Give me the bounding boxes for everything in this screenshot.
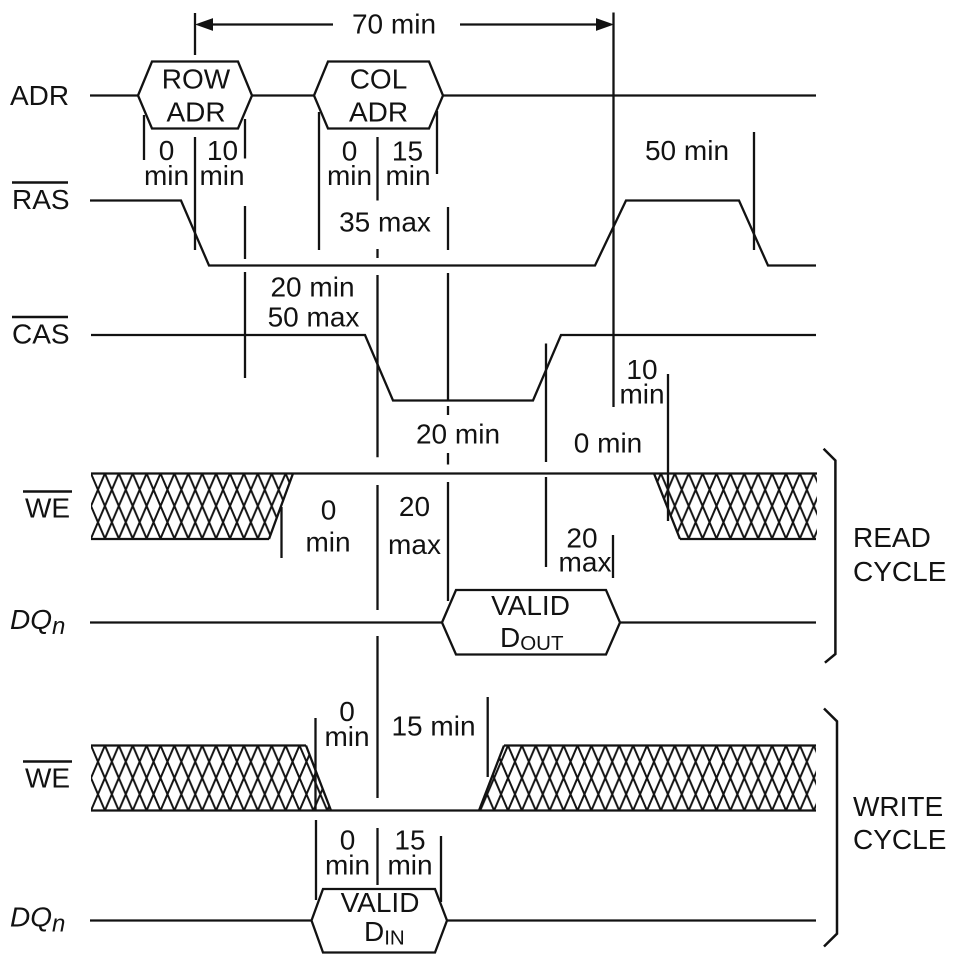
DQn read trailing line — [620, 621, 816, 623]
tick DIN left x=316 — [315, 820, 317, 900]
CAS label overline — [12, 316, 68, 319]
svg-text:min: min — [385, 160, 430, 191]
long marker line x=377.5 main — [376, 275, 378, 610]
WE read right band taper — [654, 474, 680, 540]
long marker line x=377.5 upper tick — [376, 137, 378, 201]
tick row-adr 10min right x=246 — [244, 119, 246, 159]
WE read hatch left — [91, 474, 293, 540]
tick x=668 — [667, 374, 669, 521]
svg-text:ADR: ADR — [349, 97, 408, 128]
svg-text:ADR: ADR — [10, 80, 69, 111]
svg-text:min: min — [305, 527, 350, 558]
svg-text:DIN: DIN — [364, 916, 405, 950]
svg-text:CYCLE: CYCLE — [853, 824, 946, 855]
long marker line x=377.5 lower — [376, 636, 378, 798]
WE write label overline — [23, 760, 72, 763]
svg-text:max: max — [559, 547, 612, 578]
RAS label overline — [12, 181, 68, 184]
svg-text:min: min — [144, 160, 189, 191]
tick x=613 short for 20max dout — [612, 535, 614, 578]
wire ADR between hexagons — [252, 94, 314, 96]
WE write bottom line — [91, 809, 816, 811]
WE read label overline — [23, 490, 72, 493]
svg-text:DQn: DQn — [10, 604, 65, 640]
tick row-adr 0min left x=144 — [143, 115, 145, 160]
svg-text:0: 0 — [321, 495, 337, 526]
WE write right band top — [504, 744, 816, 746]
RAS waveform — [90, 201, 816, 266]
svg-text:CAS: CAS — [12, 319, 70, 350]
tick col-adr left x=319 — [318, 112, 320, 250]
svg-text:70 min: 70 min — [352, 9, 436, 40]
svg-text:WRITE: WRITE — [853, 791, 943, 822]
brace READ cycle — [824, 449, 836, 663]
tick x=246 lower segments — [244, 206, 246, 378]
CAS waveform — [91, 335, 816, 401]
dimension 70 min right boundary long line at x=613.5 — [612, 13, 614, 408]
svg-text:min: min — [619, 379, 664, 410]
tick 50min right x=754 — [753, 132, 755, 250]
tick DIN right x=441 — [440, 836, 442, 902]
tick DIN middle x=377.5 — [376, 828, 378, 885]
svg-text:20: 20 — [399, 491, 430, 522]
svg-text:VALID: VALID — [341, 887, 420, 918]
svg-text:READ: READ — [853, 522, 931, 553]
marker line x=448 segment CAS — [447, 273, 449, 400]
brace WRITE cycle — [824, 709, 837, 947]
dimension 70 min left arrowhead — [197, 19, 213, 30]
tick WE write 15min right x=487.7 — [487, 697, 489, 777]
svg-text:0 min: 0 min — [574, 428, 642, 459]
svg-text:VALID: VALID — [491, 590, 570, 621]
bus hexagon VALID DOUT — [442, 590, 620, 655]
DQn read lead line — [90, 621, 442, 623]
WE read right band bottom — [680, 538, 816, 540]
svg-text:WE: WE — [25, 493, 70, 524]
svg-text:max: max — [388, 529, 441, 560]
marker line x=448 segment 35max — [447, 207, 449, 250]
svg-text:20 min: 20 min — [270, 272, 354, 303]
wire ADR trailing — [443, 94, 816, 96]
WE write hatch left — [91, 746, 331, 811]
svg-text:ROW: ROW — [162, 64, 231, 95]
WE read top line — [91, 472, 817, 474]
tick x=546 upper — [545, 344, 547, 463]
svg-text:COL: COL — [350, 64, 408, 95]
svg-text:50 max: 50 max — [268, 302, 360, 333]
svg-text:DQn: DQn — [10, 902, 65, 938]
svg-text:15 min: 15 min — [391, 711, 475, 742]
svg-text:35 max: 35 max — [339, 207, 431, 238]
tick WE write 0min left x=315.5 — [314, 718, 316, 810]
WE read left band taper — [269, 474, 293, 540]
WE write hatch right — [479, 746, 816, 811]
svg-text:min: min — [327, 160, 372, 191]
WE write left band top — [91, 744, 306, 746]
svg-text:WE: WE — [25, 763, 70, 794]
dimension 70 min left boundary line — [194, 13, 196, 55]
DQn write trailing line — [447, 919, 816, 921]
svg-text:CYCLE: CYCLE — [853, 556, 946, 587]
marker line x=448 dashes — [447, 406, 449, 465]
marker line x=448 segment 20max — [447, 482, 449, 601]
tick col-adr right x=437 — [436, 111, 438, 174]
svg-text:50 min: 50 min — [645, 135, 729, 166]
svg-text:ADR: ADR — [166, 97, 225, 128]
bus hexagon COL ADR — [314, 62, 443, 129]
tick x=546 lower — [545, 477, 547, 567]
WE read left band bottom — [91, 538, 269, 540]
WE write left band taper — [306, 746, 331, 811]
dimension 70 min right shaft — [460, 23, 596, 25]
svg-text:DOUT: DOUT — [500, 622, 564, 655]
svg-text:RAS: RAS — [12, 184, 70, 215]
wire ADR lead-in — [90, 94, 138, 96]
DQn write lead line — [90, 919, 312, 921]
long marker line x=377.5 dash — [376, 249, 378, 258]
svg-text:min: min — [325, 850, 370, 881]
svg-text:min: min — [324, 721, 369, 752]
bus hexagon ROW ADR — [138, 62, 252, 129]
dimension 70 min left shaft — [213, 23, 333, 25]
svg-text:min: min — [387, 850, 432, 881]
bus hexagon VALID DIN — [312, 889, 448, 953]
tick WE read 0min left x=280 — [280, 507, 282, 558]
WE write right band taper — [479, 746, 504, 811]
svg-text:20 min: 20 min — [416, 419, 500, 450]
dimension 70 min right arrowhead — [597, 19, 613, 30]
svg-text:min: min — [199, 160, 244, 191]
tick row-adr middle x=195 — [194, 137, 196, 250]
WE read hatch right — [654, 474, 817, 540]
